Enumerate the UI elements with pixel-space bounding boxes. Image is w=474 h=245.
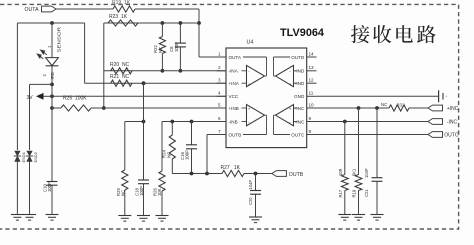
wire +INC row pin 10: [317, 107, 390, 109]
svg-text:+INC: +INC: [447, 106, 459, 112]
op-amp IC U4 TLV9064 body: [226, 48, 307, 148]
svg-text:SENSOR: SENSOR: [56, 26, 61, 52]
junction dot R24 top: [170, 120, 174, 124]
svg-text:13: 13: [309, 65, 315, 70]
svg-text:OUTB: OUTB: [289, 172, 304, 178]
svg-text:+: +: [248, 82, 251, 87]
svg-text:10: 10: [309, 102, 315, 107]
capacitor C10 100P: [47, 181, 58, 183]
ground C21: [371, 214, 384, 216]
resistor R24 NC vertical: [171, 122, 173, 136]
op-amp D triangle: [276, 65, 294, 86]
wire ESD1 vertical: [16, 23, 18, 150]
svg-text:2: 2: [218, 65, 221, 70]
wire R27 to OUTB flag: [244, 173, 272, 175]
svg-text:VCC: VCC: [229, 94, 239, 99]
ground R19: [352, 214, 365, 216]
junction dot C8 top: [179, 21, 183, 25]
svg-text:3: 3: [218, 78, 221, 83]
ground C20: [249, 216, 262, 218]
resistor R17 10R vertical: [344, 122, 346, 175]
svg-text:-INB: -INB: [229, 119, 238, 124]
svg-text:NC: NC: [166, 152, 171, 158]
svg-text:+: +: [289, 82, 292, 87]
junction dot C16 bottom: [190, 172, 194, 176]
capacitor at GND rail (polarized): [438, 90, 440, 102]
svg-text:12: 12: [309, 78, 315, 83]
wire OUTB bottom row: [172, 173, 222, 175]
light arrows into photodiode: [37, 54, 43, 59]
capacitor C18 100P: [138, 179, 149, 181]
svg-text:R19: R19: [352, 189, 357, 197]
wire OUTC row pin 8: [317, 134, 429, 136]
ESD diode D2 bidirectional: [27, 151, 33, 162]
ground R17: [338, 214, 351, 216]
svg-text:OUTB: OUTB: [229, 132, 242, 137]
junction dot C21 top: [375, 106, 379, 110]
svg-text:C20: C20: [248, 197, 253, 205]
ground C18: [137, 215, 150, 217]
pin stubs and labels U1 left: [217, 56, 227, 58]
resistor R27 1K: [222, 170, 244, 176]
svg-text:R32: R32: [397, 102, 406, 107]
ground ESD2: [23, 214, 36, 216]
svg-text:104P: 104P: [364, 168, 369, 178]
svg-text:U4: U4: [247, 40, 254, 46]
svg-text:10R: 10R: [338, 168, 343, 176]
junction dot R25 row on sensor vertical: [50, 106, 54, 110]
svg-text:R23 1K: R23 1K: [109, 14, 128, 20]
wire +INA row pin 3: [85, 82, 226, 84]
junction dot R22 bottom on -INA wire: [161, 69, 165, 73]
svg-text:IRD: IRD: [50, 72, 55, 79]
capacitor C21 104P vertical: [376, 108, 378, 178]
net flag OUTB: [272, 171, 287, 177]
resistor R19 5K1 vertical: [358, 108, 360, 175]
svg-text:+: +: [289, 107, 292, 112]
wire R32 to +INC flag: [409, 107, 428, 109]
svg-text:+: +: [248, 107, 251, 112]
svg-text:-INC: -INC: [447, 120, 458, 126]
wire R19 to node x199: [135, 8, 199, 10]
op-amp A output wire: [265, 75, 267, 77]
wire sensor to ESD2 corner: [30, 83, 53, 85]
title text 接收电路 (receiving circuit): [351, 25, 436, 43]
svg-text:ESD1: ESD1: [21, 151, 26, 162]
svg-text:OUTC: OUTC: [291, 132, 305, 137]
svg-text:9: 9: [309, 116, 312, 121]
resistor R26 10K vertical: [161, 122, 163, 172]
ground C10: [46, 214, 59, 216]
wire ESD2 vertical: [29, 84, 31, 150]
op-amp D output wire: [274, 75, 276, 77]
svg-text:6: 6: [218, 116, 221, 121]
junction dot R22 top: [161, 21, 165, 25]
junction dot C16 top: [190, 120, 194, 124]
svg-text:TLV9064: TLV9064: [280, 27, 325, 39]
svg-text:5K1: 5K1: [352, 168, 357, 176]
svg-text:NC: NC: [158, 47, 163, 53]
svg-text:R20 NC: R20 NC: [110, 62, 130, 68]
svg-text:OUTD: OUTD: [291, 55, 305, 60]
wire node to pin 1: [199, 56, 226, 58]
svg-text:R21 NC: R21 NC: [110, 74, 130, 80]
op-amp B triangle: [247, 105, 265, 126]
wire vertical OUTA net down to pin 1: [198, 9, 200, 57]
wire VCC row pin 4: [52, 95, 226, 97]
op-amp C triangle: [276, 105, 294, 126]
wire pin 7 branch: [207, 134, 226, 136]
svg-text:GND: GND: [294, 94, 305, 99]
wire sensor vertical to C10: [51, 84, 53, 181]
svg-text:OUTA: OUTA: [25, 7, 40, 13]
net flag -INC: [428, 119, 443, 125]
net flag OUTA: [42, 6, 57, 12]
junction dot node x143 on -INB row: [142, 120, 146, 124]
junction dot C20 node: [254, 172, 258, 176]
wire node A vertical from R21 to C18: [143, 83, 145, 180]
svg-text:5: 5: [218, 102, 221, 107]
svg-text:NC: NC: [381, 102, 387, 107]
junction dot feedback node: [197, 21, 201, 25]
resistor R21 NC: [111, 80, 132, 86]
op-amp C output wire: [274, 114, 276, 116]
wire +INB row pin 5 with R25: [52, 107, 61, 109]
op-amp A triangle: [247, 65, 265, 86]
svg-text:100P: 100P: [47, 182, 52, 192]
capacitor C8 100P: [179, 23, 181, 43]
svg-text:1: 1: [218, 51, 221, 56]
junction dot R21 node: [142, 81, 146, 85]
svg-text:14: 14: [309, 51, 315, 56]
svg-text:+INA: +INA: [229, 81, 240, 86]
wire GND pin 11 to decoupling cap: [317, 95, 439, 97]
resistor R20 NC: [111, 68, 132, 74]
svg-text:-INA: -INA: [229, 69, 239, 74]
junction dot R17 top: [343, 120, 347, 124]
svg-text:OUTA: OUTA: [229, 55, 242, 60]
svg-text:10K: 10K: [157, 188, 162, 196]
junction dot pin7 branch: [205, 172, 209, 176]
sensor top wire: [17, 22, 84, 24]
junction dot sensor net ESD branch: [50, 83, 54, 87]
svg-text:+INB: +INB: [229, 106, 239, 111]
net flag OUTC: [428, 132, 443, 138]
net flag +INC: [428, 105, 443, 111]
svg-text:R19 1K: R19 1K: [112, 0, 131, 6]
svg-text:8: 8: [309, 129, 312, 134]
wire -INB row pin 6: [162, 121, 226, 123]
junction dot C8 bottom on -INA wire: [179, 69, 183, 73]
svg-text:100P: 100P: [174, 42, 179, 52]
photodiode SENSOR IRD: [51, 23, 53, 58]
wire R29 to node A segment: [125, 121, 144, 123]
capacitor C16 100P: [191, 122, 193, 145]
ground ESD1: [11, 214, 24, 216]
capacitor C20 104P: [255, 174, 257, 191]
junction dot 3V on sensor vertical: [50, 94, 54, 98]
svg-text:3V: 3V: [27, 95, 34, 101]
ground R29: [118, 215, 131, 217]
wire sensor top right leg down to +INA row: [84, 23, 86, 83]
resistor R23 1K: [108, 20, 138, 26]
svg-text:ESD2: ESD2: [33, 151, 38, 162]
svg-text:104P: 104P: [248, 180, 253, 190]
ESD diode D1 bidirectional: [15, 151, 21, 162]
svg-text:R17: R17: [338, 189, 343, 197]
junction dot sensor pin 1: [50, 21, 54, 25]
resistor R29 NC vertical: [124, 122, 126, 171]
vertical rail feedback left: [103, 23, 105, 108]
junction dot R19a top: [357, 106, 361, 110]
svg-text:C21: C21: [364, 189, 369, 197]
wire -INC row pin 9: [317, 121, 429, 123]
resistor R19 1K (clipped by border): [113, 6, 135, 12]
svg-text:4: 4: [218, 91, 221, 96]
svg-text:R27 1K: R27 1K: [221, 165, 241, 171]
svg-text:OUTC: OUTC: [444, 133, 459, 139]
ground R26: [156, 215, 169, 217]
svg-text:R25 100K: R25 100K: [63, 96, 87, 102]
junction dot rail at +INB row: [102, 106, 106, 110]
resistor R32: [389, 105, 409, 111]
svg-text:11: 11: [309, 91, 314, 96]
svg-text:NC: NC: [120, 190, 125, 196]
svg-text:+: +: [445, 94, 447, 98]
svg-text:100P: 100P: [139, 186, 144, 196]
op-amp B output wire: [265, 114, 267, 116]
svg-text:7: 7: [218, 129, 221, 134]
resistor R22 NC vertical: [161, 23, 163, 37]
svg-text:100P: 100P: [184, 150, 189, 160]
resistor R25 100K: [61, 105, 91, 111]
pin stubs and labels U1 right: [307, 56, 317, 58]
feedback row wire y23: [104, 22, 199, 24]
wire OUTA flag to R19: [56, 8, 113, 10]
wire -INA row pin 2: [104, 70, 226, 72]
